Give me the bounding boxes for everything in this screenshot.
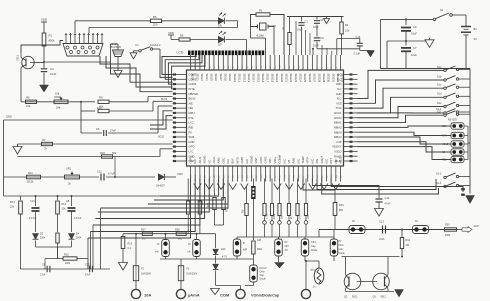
svg-text:R2: R2 <box>259 9 263 13</box>
wire bottom supply rail <box>380 68 470 70</box>
svg-text:10A: 10A <box>144 293 151 298</box>
svg-text:C11: C11 <box>97 170 102 174</box>
capacitor C11 <box>100 174 102 181</box>
svg-text:R11: R11 <box>28 171 33 175</box>
svg-text:N.C: N.C <box>245 159 249 164</box>
wire rail to power switch <box>380 18 433 20</box>
svg-text:220: 220 <box>153 23 158 27</box>
svg-text:S1-4: S1-4 <box>436 182 442 185</box>
wire mid node to arrow <box>406 40 427 42</box>
svg-text:10k: 10k <box>26 104 31 108</box>
svg-text:20k: 20k <box>56 106 61 110</box>
wire bottom pin to S1-3 <box>317 179 436 190</box>
wire transistor bases <box>357 281 377 283</box>
resistor R12 <box>57 196 59 200</box>
svg-text:MBA1: MBA1 <box>334 121 342 125</box>
wire right rail vertical <box>469 69 471 194</box>
svg-text:COM4: COM4 <box>189 82 197 86</box>
svg-text:R12: R12 <box>62 203 67 206</box>
svg-text:PII: PII <box>189 130 193 134</box>
wire R6 to LED D9 <box>190 39 218 41</box>
svg-text:S1a: S1a <box>437 66 442 69</box>
wire C2 to C16 <box>317 48 360 50</box>
resistor R1 <box>42 33 46 46</box>
resistor R29 <box>334 190 336 202</box>
svg-text:C5: C5 <box>96 127 100 131</box>
ground below C4 <box>40 85 49 92</box>
ground arrow right of header <box>469 196 471 198</box>
svg-text:N.C: N.C <box>334 159 338 164</box>
svg-text:4.19M: 4.19M <box>257 34 264 38</box>
svg-text:C1: C1 <box>305 20 309 24</box>
resistor R31 <box>401 230 403 238</box>
ground arrow supply mid <box>429 38 431 40</box>
svg-text:µAmA: µAmA <box>188 293 200 298</box>
svg-text:TEMP: TEMP <box>301 156 305 164</box>
pushbuttons K2-K6 <box>442 123 464 163</box>
svg-text:SEG10: SEG10 <box>233 74 237 83</box>
svg-text:Ohm: Ohm <box>339 244 344 247</box>
svg-text:S1d: S1d <box>437 93 442 96</box>
svg-text:OSP2: OSP2 <box>189 156 193 164</box>
wire C11 junction up <box>114 157 116 178</box>
wire DB9 top rail 2 <box>88 28 90 34</box>
wire bottom pin to S1-4 <box>322 179 439 195</box>
svg-text:SEG19: SEG19 <box>275 74 279 83</box>
wire R9 to IC <box>109 101 148 103</box>
capacitor C1 <box>301 17 303 22</box>
svg-text:Ohm: Ohm <box>311 241 316 244</box>
capacitor C13 <box>382 226 384 234</box>
svg-text:SUB: SUB <box>189 135 195 139</box>
svg-text:10nF: 10nF <box>50 72 57 76</box>
svg-text:BUX2: BUX2 <box>189 97 197 101</box>
IC U1 bottom pin labels <box>189 154 343 163</box>
svg-text:10uF: 10uF <box>297 29 303 32</box>
svg-text:JC: JC <box>157 243 160 246</box>
wires left bundle to IC pins <box>21 41 173 92</box>
switch S2 power <box>433 18 436 21</box>
svg-text:R29: R29 <box>339 204 344 207</box>
connector J1 DB9 <box>63 44 103 57</box>
resistor R3 <box>289 17 291 33</box>
svg-text:Cap: Cap <box>311 245 316 248</box>
svg-text:ACP: ACP <box>474 224 480 228</box>
svg-text:Diode: Diode <box>260 278 267 281</box>
ground marker hollow before COM <box>211 289 220 295</box>
svg-text:SEG3: SEG3 <box>200 74 204 82</box>
svg-text:SEG16: SEG16 <box>261 74 265 83</box>
capacitor C12 <box>89 266 91 273</box>
contact SW Hz <box>330 239 338 256</box>
svg-text:SEG5: SEG5 <box>209 74 213 82</box>
svg-text:N.C: N.C <box>282 159 286 164</box>
svg-text:10uF: 10uF <box>411 53 417 57</box>
resistor R18 divider <box>199 179 201 201</box>
resistor R2 crystal feedback <box>256 13 270 16</box>
wire bottom pins right short <box>331 179 463 193</box>
svg-text:RAN: RAN <box>442 135 447 138</box>
svg-text:S2: S2 <box>440 8 444 12</box>
resistor R13v <box>56 233 59 243</box>
wire K1 right <box>153 48 160 50</box>
wire R11b rail <box>18 156 161 158</box>
svg-text:RCK2: RCK2 <box>334 116 342 120</box>
svg-text:SEG31: SEG31 <box>331 74 335 83</box>
wire divider bottom rail <box>237 236 334 238</box>
svg-text:SEG20: SEG20 <box>280 74 284 83</box>
svg-text:R5: R5 <box>153 15 157 19</box>
LCD connector pad row <box>188 51 264 56</box>
wire bottom pin to R29 <box>303 179 335 191</box>
svg-text:SEG13: SEG13 <box>247 74 251 83</box>
diode D4 zener <box>69 234 75 240</box>
svg-text:27uF: 27uF <box>40 274 46 277</box>
svg-text:ACAL: ACAL <box>212 156 216 164</box>
potentiometer VR2 <box>65 175 80 179</box>
ground under R15 <box>122 261 124 263</box>
svg-text:C2: C2 <box>321 36 325 40</box>
resistor R14 <box>20 196 22 200</box>
svg-text:GND: GND <box>6 115 12 119</box>
svg-text:MPU: MPU <box>189 111 195 115</box>
wires IC left lower pins <box>150 111 173 129</box>
svg-text:INTO: INTO <box>235 157 239 163</box>
svg-text:2004: 2004 <box>40 237 46 240</box>
svg-text:VDD: VDD <box>168 31 174 35</box>
resistor R19 <box>252 241 255 254</box>
svg-text:N.C: N.C <box>226 159 230 164</box>
wire bus IC bottom pins to lower left <box>88 179 228 270</box>
capacitor C2 <box>314 37 321 39</box>
resistor R32 under pin <box>213 182 216 197</box>
svg-text:860: 860 <box>178 238 183 241</box>
svg-text:R16: R16 <box>100 151 105 155</box>
svg-text:S1b: S1b <box>437 75 442 78</box>
IC U1 right pins with pads <box>344 73 358 162</box>
svg-text:OPO: OPO <box>189 145 195 149</box>
svg-text:SEG29: SEG29 <box>322 74 326 83</box>
svg-text:BUZZER: BUZZER <box>111 45 122 49</box>
svg-text:AUD: AUD <box>336 92 342 96</box>
connector chevrons under IC <box>194 184 340 190</box>
svg-text:850k: 850k <box>49 39 56 43</box>
svg-text:KEYDZY: KEYDZY <box>448 118 458 121</box>
svg-text:AGND: AGND <box>203 156 207 164</box>
svg-text:VDD: VDD <box>177 172 183 176</box>
svg-text:uA: uA <box>188 251 191 254</box>
svg-text:VRF-: VRF- <box>268 157 272 163</box>
svg-text:R15: R15 <box>128 243 133 246</box>
rotary switch contacts S1a-S1f <box>437 66 470 117</box>
wire PTC top to rail <box>318 230 320 238</box>
contact SW Hz2 <box>349 226 365 234</box>
contact SW V <box>275 239 283 256</box>
svg-text:SEG23: SEG23 <box>294 74 298 83</box>
wire pushbutton right rail <box>464 125 468 127</box>
contact SW B <box>233 239 241 256</box>
contact SW Ohm <box>301 239 309 256</box>
svg-text:SEG21: SEG21 <box>284 74 288 83</box>
svg-text:32768: 32768 <box>269 24 277 28</box>
svg-text:SEG25: SEG25 <box>303 74 307 83</box>
svg-text:1.76k: 1.76k <box>267 213 269 219</box>
wire DB9 top rail 1 <box>74 21 76 33</box>
diode D10 protection <box>215 234 217 248</box>
svg-text:VSS: VSS <box>336 101 342 105</box>
svg-text:D9: D9 <box>218 43 222 47</box>
svg-text:AIN2: AIN2 <box>217 157 221 163</box>
IC U1 bottom pins <box>191 166 341 182</box>
svg-text:N.C: N.C <box>296 159 300 164</box>
svg-text:C3: C3 <box>320 18 324 22</box>
wires top pins to cluster <box>296 21 332 55</box>
svg-text:1N4007: 1N4007 <box>156 185 165 188</box>
ground under C14 <box>378 207 380 209</box>
svg-text:C7: C7 <box>413 46 417 50</box>
svg-text:10A/250V: 10A/250V <box>141 273 152 276</box>
svg-text:47nF: 47nF <box>385 203 391 206</box>
svg-text:9M: 9M <box>242 210 245 213</box>
crystal Y1 32768Hz <box>260 23 267 30</box>
svg-text:OSC: OSC <box>221 158 225 164</box>
svg-text:SEG12: SEG12 <box>242 74 246 83</box>
DB9 pins up <box>65 33 103 44</box>
wire rail y259 lower <box>160 258 253 260</box>
svg-text:R9: R9 <box>99 96 103 100</box>
svg-text:R28: R28 <box>175 229 180 232</box>
capacitor C10 <box>35 196 37 206</box>
svg-text:900k: 900k <box>274 213 276 219</box>
svg-text:SEG4: SEG4 <box>205 74 209 82</box>
ground C16 <box>360 50 371 52</box>
PTC thermistor <box>314 268 324 284</box>
IC U1 top pin numbers outside <box>191 65 343 68</box>
svg-text:900: 900 <box>201 200 204 205</box>
fuse F1 <box>135 234 137 266</box>
svg-text:9012: 9012 <box>352 296 358 299</box>
svg-text:B1: B1 <box>474 27 478 31</box>
filled marker under contact V <box>275 263 285 269</box>
svg-text:27nF: 27nF <box>110 129 116 133</box>
wire R5 to LED D8 <box>162 20 219 22</box>
svg-text:VR1: VR1 <box>66 167 72 171</box>
wire bottom pin to C14 <box>312 179 379 195</box>
transistor Q2 <box>344 273 361 290</box>
svg-text:25V: 25V <box>285 245 290 248</box>
IC U1 left pins with pads <box>173 73 187 162</box>
svg-text:VOhmDiodeCap: VOhmDiodeCap <box>251 294 280 298</box>
svg-text:0.5A/250V: 0.5A/250V <box>187 273 198 276</box>
jack VOhm <box>301 289 310 298</box>
svg-text:NBPNR: NBPNR <box>189 92 198 96</box>
contact SW Hz3 <box>413 226 429 234</box>
svg-text:10k: 10k <box>55 92 60 96</box>
wire to R15h row <box>57 247 59 259</box>
wire crystal loop <box>251 15 258 27</box>
wire node to Q1 base <box>34 62 44 64</box>
svg-text:R8: R8 <box>26 96 30 100</box>
svg-text:9012: 9012 <box>381 296 387 299</box>
wire C16 top to pins <box>337 38 360 40</box>
svg-text:S1e: S1e <box>437 102 442 105</box>
svg-text:XOUT: XOUT <box>320 156 324 164</box>
capacitor C14 <box>378 194 380 198</box>
svg-text:SEG11: SEG11 <box>238 74 242 83</box>
svg-text:27uF: 27uF <box>85 274 91 277</box>
resistor R10 <box>80 102 82 111</box>
resistor R5 top <box>151 19 162 22</box>
svg-text:D8: D8 <box>218 24 222 28</box>
contact SW DCmV <box>250 265 258 282</box>
svg-text:SEG7: SEG7 <box>219 74 223 82</box>
divider resistors R21-R26 <box>263 179 311 238</box>
svg-text:40P: 40P <box>243 249 248 252</box>
svg-text:VC: VC <box>207 160 211 164</box>
svg-text:R17: R17 <box>189 200 192 205</box>
wire Q1 emitter down to R8 rail <box>20 68 22 102</box>
diode D7 <box>158 174 164 180</box>
capacitor C16 <box>359 39 361 43</box>
svg-text:R14: R14 <box>10 201 15 204</box>
svg-text:R1: R1 <box>49 34 53 38</box>
capacitor C9 <box>46 266 48 273</box>
svg-text:LCD: LCD <box>177 51 184 55</box>
svg-text:VDD: VDD <box>336 82 342 86</box>
jumper header J2 black <box>252 179 254 187</box>
svg-text:XIN: XIN <box>315 159 319 164</box>
wire rail y196 <box>4 195 161 197</box>
svg-text:S1-3: S1-3 <box>436 173 442 176</box>
wire Q1 collector up <box>20 52 22 58</box>
svg-text:RST: RST <box>329 158 333 164</box>
resistor R16 50k <box>102 155 113 158</box>
wire emitters to ground <box>352 290 354 293</box>
svg-text:R4: R4 <box>345 23 349 27</box>
svg-text:N.C: N.C <box>310 159 314 164</box>
ground below buzzer <box>117 69 119 71</box>
svg-text:R27: R27 <box>141 229 146 232</box>
wire K1 left to ground <box>134 50 139 52</box>
svg-text:N.C: N.C <box>337 87 342 91</box>
IC U1 main DMM chip body <box>187 70 344 166</box>
svg-text:C4P: C4P <box>336 140 341 144</box>
svg-text:AC: AC <box>285 249 289 252</box>
LED D8 <box>218 18 224 24</box>
svg-text:Diode: Diode <box>339 252 346 255</box>
svg-text:SEG28: SEG28 <box>317 74 321 83</box>
svg-text:U.C: U.C <box>189 149 194 153</box>
resistor R8 <box>26 100 37 103</box>
wire transistor top rail <box>342 256 400 258</box>
svg-text:VRF+: VRF+ <box>273 156 277 163</box>
svg-text:VPTA: VPTA <box>306 156 310 163</box>
svg-text:CAP2: CAP2 <box>264 156 268 164</box>
svg-text:D10: D10 <box>221 248 226 251</box>
IC U1 bottom pin numbers outside <box>191 175 343 178</box>
svg-text:SEG27: SEG27 <box>313 74 317 83</box>
contact SW mA <box>193 240 201 257</box>
svg-text:C12: C12 <box>85 264 90 267</box>
svg-text:GND: GND <box>189 140 195 144</box>
wire left edge vertical <box>3 120 5 196</box>
ground bottom right <box>395 290 404 298</box>
svg-text:SEG17: SEG17 <box>266 74 270 83</box>
svg-text:10uF: 10uF <box>313 45 319 48</box>
svg-text:Cap: Cap <box>339 248 344 251</box>
svg-text:N.C: N.C <box>193 159 197 164</box>
jack COM <box>240 286 242 290</box>
ACP output arrow <box>457 229 463 231</box>
svg-text:2004: 2004 <box>76 237 82 240</box>
svg-text:R31: R31 <box>406 239 411 242</box>
svg-text:VINT: VINT <box>254 157 258 163</box>
resistor R27 shunt <box>142 232 152 235</box>
capacitor C3 <box>316 17 318 20</box>
svg-text:905: 905 <box>339 209 344 212</box>
resistor R6 <box>171 39 179 41</box>
svg-text:AIE: AIE <box>189 101 194 105</box>
capacitor C4 <box>43 62 45 68</box>
wires IC right pins to rotary switches <box>358 70 444 122</box>
IC U1 top pins <box>191 55 341 70</box>
svg-text:C10: C10 <box>30 200 35 203</box>
wire R7 rail <box>18 143 173 145</box>
svg-text:28.5k: 28.5k <box>27 180 34 184</box>
wire node right toward bundle <box>44 61 111 63</box>
svg-text:SEG22: SEG22 <box>289 74 293 83</box>
svg-text:CMPI: CMPI <box>240 157 244 164</box>
svg-text:10k: 10k <box>345 29 350 33</box>
wire VDD rail top-right cluster <box>287 16 344 18</box>
LED D9 <box>218 36 224 42</box>
svg-text:K1&S1-2: K1&S1-2 <box>150 43 161 47</box>
svg-text:0.47uF: 0.47uF <box>74 217 82 220</box>
wire long GND rail left <box>4 119 173 121</box>
svg-text:ADJ2: ADJ2 <box>158 136 165 139</box>
svg-text:VDDXY: VDDXY <box>332 145 341 149</box>
svg-text:S1-1: S1-1 <box>436 108 442 111</box>
wire bus IC left pins to LCD pins <box>162 55 205 89</box>
fuse F2 <box>180 259 182 266</box>
svg-text:SEG6: SEG6 <box>214 74 218 82</box>
svg-text:R15: R15 <box>64 254 69 257</box>
capacitor C8 <box>71 196 73 206</box>
resistor R11 <box>27 175 41 179</box>
svg-text:C14: C14 <box>385 196 390 200</box>
resistor R4 <box>341 17 343 23</box>
svg-text:C13: C13 <box>379 220 384 224</box>
potentiometer VR1 <box>54 100 68 104</box>
svg-text:2M: 2M <box>406 244 409 247</box>
svg-text:10uF: 10uF <box>313 26 319 29</box>
resistor R15 0.1 shunt <box>122 234 124 236</box>
svg-text:R6: R6 <box>180 34 184 38</box>
svg-text:SEG32: SEG32 <box>336 74 340 83</box>
diode D11 protection <box>213 264 219 269</box>
resistor R33 under pin <box>222 182 224 197</box>
svg-text:100k: 100k <box>445 234 451 237</box>
wire bottom rail y269 <box>21 268 111 270</box>
svg-text:0.1uF: 0.1uF <box>354 52 361 56</box>
svg-text:COMM: COMM <box>278 154 282 163</box>
svg-text:9V: 9V <box>474 37 477 41</box>
wire rail y233.7 <box>123 233 216 235</box>
svg-text:AGND: AGND <box>249 156 253 164</box>
svg-text:R7: R7 <box>42 138 46 142</box>
resistor R20 divider 9M <box>246 186 248 203</box>
svg-text:K1: K1 <box>136 43 140 47</box>
